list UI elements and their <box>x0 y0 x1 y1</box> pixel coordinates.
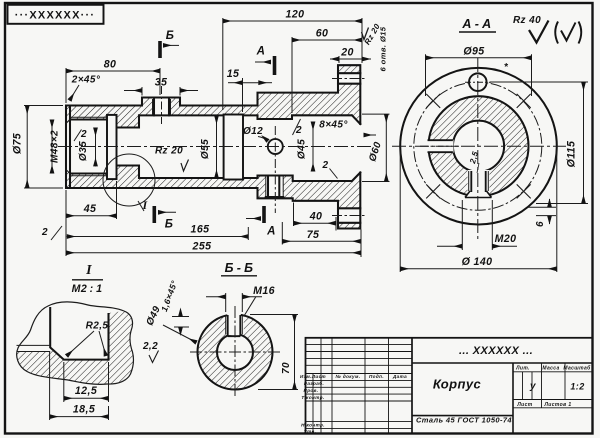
corner finish mark Rz40 <box>513 15 581 44</box>
note 2.5 in slot <box>468 150 480 173</box>
svg-text:Утв.: Утв. <box>304 429 317 434</box>
material row line <box>412 415 513 417</box>
boss hole thread lines <box>153 99 171 115</box>
groove ring 1 <box>107 115 117 179</box>
left slot centerline <box>420 145 460 147</box>
dimension M48x2 <box>51 120 53 174</box>
svg-text:2: 2 <box>41 227 48 238</box>
svg-text:Б: Б <box>166 30 175 42</box>
thread M48 crest lines <box>70 117 107 176</box>
dimension 20 flange width <box>330 56 371 63</box>
dimension d60 <box>362 114 390 181</box>
svg-text:2: 2 <box>295 125 302 136</box>
dimension 80 top <box>66 68 160 103</box>
main view outline (thick) <box>66 65 360 228</box>
dimension d115 <box>490 82 588 204</box>
hatch flange top below hole <box>338 84 360 124</box>
d12 hole centerline <box>274 126 276 213</box>
B-B title <box>221 261 257 276</box>
svg-text:Корпус: Корпус <box>433 377 482 392</box>
chamfer note 2 left bore <box>74 129 87 141</box>
designation text <box>459 345 533 357</box>
top hole short centerline <box>465 81 491 83</box>
vertical centerline <box>234 306 236 398</box>
svg-text:М2 : 1: М2 : 1 <box>72 283 103 295</box>
bolt hole position cross SW <box>426 184 440 198</box>
hatch big block bottom wall B <box>293 181 338 201</box>
dimension 60 flange <box>292 37 362 113</box>
bottom slot thread walls <box>471 171 485 192</box>
chamfer note 2 right top <box>293 119 303 136</box>
detail I indicator circle <box>103 154 155 211</box>
flange top hole centerline <box>332 78 367 80</box>
left slot void (d12 hole) <box>427 140 454 153</box>
svg-text:255: 255 <box>192 241 213 253</box>
dimension d95 <box>426 54 532 96</box>
detail I thread thin lines <box>17 345 51 351</box>
hatch flange top above hole <box>338 65 360 73</box>
svg-text:А: А <box>256 46 266 58</box>
left slot edges <box>428 140 453 152</box>
vertical centerline <box>477 58 479 240</box>
bolt hole position cross SE <box>517 184 531 198</box>
note 2.2 finish <box>142 341 159 363</box>
svg-text:Ø 140: Ø 140 <box>462 256 493 268</box>
svg-text:Ø35: Ø35 <box>78 141 89 161</box>
dimension d140 <box>400 150 557 272</box>
svg-text:Ø95: Ø95 <box>463 46 485 58</box>
dimension M16 <box>244 285 275 316</box>
A-A title <box>459 17 496 32</box>
svg-text:М16: М16 <box>253 285 275 297</box>
svg-text:*: * <box>504 62 509 73</box>
keyway slot void over arc <box>227 313 241 335</box>
left face chamfer second line <box>69 106 71 189</box>
slot walls M16 <box>228 315 241 336</box>
lit sub verticals <box>523 372 533 400</box>
title block outer border <box>306 338 593 434</box>
chamfer note 2x45 <box>70 75 101 101</box>
bore d55 lines <box>139 115 258 178</box>
svg-text:2,2: 2,2 <box>142 341 158 352</box>
bolt circle d115 centerline <box>414 82 542 210</box>
svg-text:70: 70 <box>281 362 292 374</box>
leader d12 <box>243 126 268 141</box>
top-left designation box <box>8 5 104 24</box>
svg-text:Разраб.: Разраб. <box>304 380 324 386</box>
svg-text:Сталь 45 ГОСТ 1050-74: Сталь 45 ГОСТ 1050-74 <box>416 416 512 425</box>
detail view label I leader <box>141 198 148 212</box>
svg-text:А: А <box>266 226 276 238</box>
flange hole top edges <box>338 73 360 84</box>
svg-text:Листов 1: Листов 1 <box>543 402 571 408</box>
hatch annulus <box>198 315 273 390</box>
hatch top wall right of boss hole <box>169 98 258 116</box>
dimension 120 <box>223 18 362 110</box>
chamfer note 2 right bottom <box>322 160 338 179</box>
svg-text:18,5: 18,5 <box>73 404 96 416</box>
section mark A top <box>255 46 275 76</box>
name column vertical <box>512 363 514 434</box>
svg-text:Б - Б: Б - Б <box>225 261 254 275</box>
surface mark Rz20 with 6 holes d15 note <box>362 22 388 71</box>
sheet row lines <box>513 400 593 408</box>
main view: housing longitudinal section <box>66 65 360 228</box>
svg-text:№ докум.: № докум. <box>335 374 360 379</box>
svg-text:Ø115: Ø115 <box>566 140 578 167</box>
svg-text:1:2: 1:2 <box>570 382 584 392</box>
M20 slot walls and bottom <box>266 176 283 198</box>
svg-text:I: I <box>85 263 92 278</box>
chamfer note 8x45 <box>319 120 348 131</box>
left table header texts <box>300 374 407 434</box>
svg-text:6 отв. Ø15: 6 отв. Ø15 <box>379 26 388 71</box>
detail I hatch region <box>17 311 134 384</box>
hatch bottom wall of middle body <box>66 166 258 189</box>
svg-text:8×45°: 8×45° <box>319 120 348 131</box>
svg-text:35: 35 <box>155 77 168 89</box>
bore d35 lines <box>117 115 140 178</box>
svg-text:20: 20 <box>340 47 354 59</box>
svg-text:R2,5: R2,5 <box>86 321 109 332</box>
hatch big block top wall <box>258 93 339 119</box>
slot thread thin lines <box>226 316 243 334</box>
svg-text:6: 6 <box>535 221 546 227</box>
bore circle <box>217 334 253 370</box>
scale value <box>570 382 584 392</box>
part name Korpus <box>433 377 482 392</box>
svg-text:Изм.Лист: Изм.Лист <box>300 374 326 379</box>
M20 slot thread lines <box>266 177 283 197</box>
svg-text:Лит.: Лит. <box>515 366 530 372</box>
hatch big block bottom wall left sliver <box>258 176 266 199</box>
main axis centerline <box>58 146 372 148</box>
dimension d45 <box>312 122 314 172</box>
svg-text:Пров.: Пров. <box>304 388 319 393</box>
lit mass scale header line <box>513 371 593 373</box>
svg-text:... ХХХХХХ ...: ... ХХХХХХ ... <box>459 345 533 357</box>
note R2.5 <box>67 321 109 357</box>
svg-text:80: 80 <box>104 59 117 71</box>
svg-text:2: 2 <box>322 160 329 171</box>
svg-text:40: 40 <box>309 211 323 223</box>
sheet row texts <box>516 402 571 408</box>
svg-text:Rz 40: Rz 40 <box>513 15 541 26</box>
left end chamfer diagonals <box>66 120 70 174</box>
note 1.6x45 <box>159 279 189 334</box>
bolt hole position cross NW <box>426 94 440 108</box>
hatch top wall left of boss hole <box>66 98 154 128</box>
svg-text:Ø45: Ø45 <box>297 139 308 159</box>
svg-text:Дата: Дата <box>392 374 407 379</box>
lit value <box>529 381 536 392</box>
left table verticals <box>313 338 389 434</box>
svg-text:···ХХХХХХ···: ···ХХХХХХ··· <box>15 10 95 22</box>
outer contour <box>66 65 360 228</box>
svg-text:А - А: А - А <box>461 17 491 31</box>
svg-text:Лист: Лист <box>516 402 532 408</box>
top bolt hole d15 <box>469 73 487 91</box>
title block <box>306 338 593 434</box>
designation row line <box>412 362 593 364</box>
dimension 165 <box>67 227 249 240</box>
dimension 35 boss <box>124 87 198 96</box>
leader d49 <box>145 304 197 342</box>
horizontal centerline <box>190 351 281 353</box>
svg-text:Н.контр.: Н.контр. <box>301 422 325 427</box>
hatch big block bottom wall right sliver <box>283 176 293 199</box>
section mark B bottom <box>154 206 176 231</box>
svg-text:у: у <box>529 381 536 392</box>
boss hole centerline <box>161 86 163 124</box>
section A-A view <box>392 58 566 240</box>
material row text <box>416 416 512 425</box>
detail I title <box>72 263 103 295</box>
left table horizontals <box>306 345 413 429</box>
mass/scale verticals <box>542 363 566 408</box>
dimension 18.5 <box>50 352 109 420</box>
thread bore M48 lines <box>70 120 107 174</box>
svg-text:Масштаб: Масштаб <box>563 365 591 372</box>
hatch flange bottom below hole <box>338 223 360 229</box>
chamfer note 2 left bottom <box>41 226 62 240</box>
dimension M20 <box>437 200 517 250</box>
keyway slot void <box>226 313 244 337</box>
dimension 70 <box>250 315 298 390</box>
svg-text:75: 75 <box>307 229 320 241</box>
section mark A bottom <box>246 206 276 238</box>
groove ring 2 <box>224 115 243 180</box>
svg-text:Ø12: Ø12 <box>243 126 263 137</box>
dimension d55 <box>216 115 218 178</box>
svg-text:Т.контр.: Т.контр. <box>301 395 324 400</box>
detail I groove profile <box>50 307 108 360</box>
svg-text:Б: Б <box>165 219 174 231</box>
dimension 75 bottom right <box>282 222 361 257</box>
svg-text:Rz 20: Rz 20 <box>155 146 183 157</box>
svg-text:60: 60 <box>316 28 329 40</box>
bore circle d60 <box>453 121 504 172</box>
bolt hole position cross NE <box>517 94 531 108</box>
outer flange circle d140 <box>400 68 557 225</box>
hatch flange bottom above hole <box>338 173 360 209</box>
dimension 40 bottom right <box>294 203 337 231</box>
dimension 12.5 <box>64 362 109 402</box>
horizontal centerline <box>392 145 566 147</box>
bottom slot flare <box>465 191 492 198</box>
svg-text:Ø55: Ø55 <box>200 139 211 159</box>
cross hole d12 circle <box>268 139 283 154</box>
svg-text:165: 165 <box>191 224 211 236</box>
dimension 6 <box>528 199 556 224</box>
section B-B view <box>190 306 281 398</box>
hub circle d95 <box>429 96 529 196</box>
dimension 45 bottom <box>66 181 117 219</box>
section mark B top <box>160 30 179 58</box>
svg-text:2×45°: 2×45° <box>71 75 101 86</box>
thin feature lines <box>66 99 283 196</box>
star mark <box>504 62 509 73</box>
svg-text:Подп.: Подп. <box>369 374 384 379</box>
dimension d75 <box>24 106 63 189</box>
svg-text:I: I <box>141 198 148 212</box>
svg-text:120: 120 <box>286 9 305 21</box>
svg-text:45: 45 <box>83 203 97 215</box>
flange hole bottom edges <box>338 208 360 223</box>
svg-text:М48×2: М48×2 <box>50 130 61 163</box>
major vertical doc column <box>411 338 413 434</box>
svg-text:Ø75: Ø75 <box>12 132 24 154</box>
svg-text:12,5: 12,5 <box>75 385 98 397</box>
outer circle <box>198 315 273 390</box>
flange bottom hole centerline <box>332 215 367 217</box>
dimension 255 overall <box>66 190 361 256</box>
opening chamfer edges 8x45 <box>352 115 360 181</box>
detail I blob outline <box>17 302 134 384</box>
big block bore ceiling <box>258 115 352 181</box>
svg-text:Масса: Масса <box>542 366 559 372</box>
bottom slot thread thin lines <box>469 171 489 191</box>
dimension d35 <box>95 128 97 167</box>
svg-text:М20: М20 <box>495 233 517 245</box>
boss hole walls <box>154 98 169 116</box>
svg-text:15: 15 <box>227 68 240 80</box>
surface mark Rz20 middle <box>155 146 189 172</box>
bottom slot void (M20 hole) <box>468 170 490 198</box>
header cells lit massa masshtab <box>515 365 591 372</box>
dimension 15 <box>228 78 272 112</box>
hatch annulus of hub <box>429 96 529 196</box>
